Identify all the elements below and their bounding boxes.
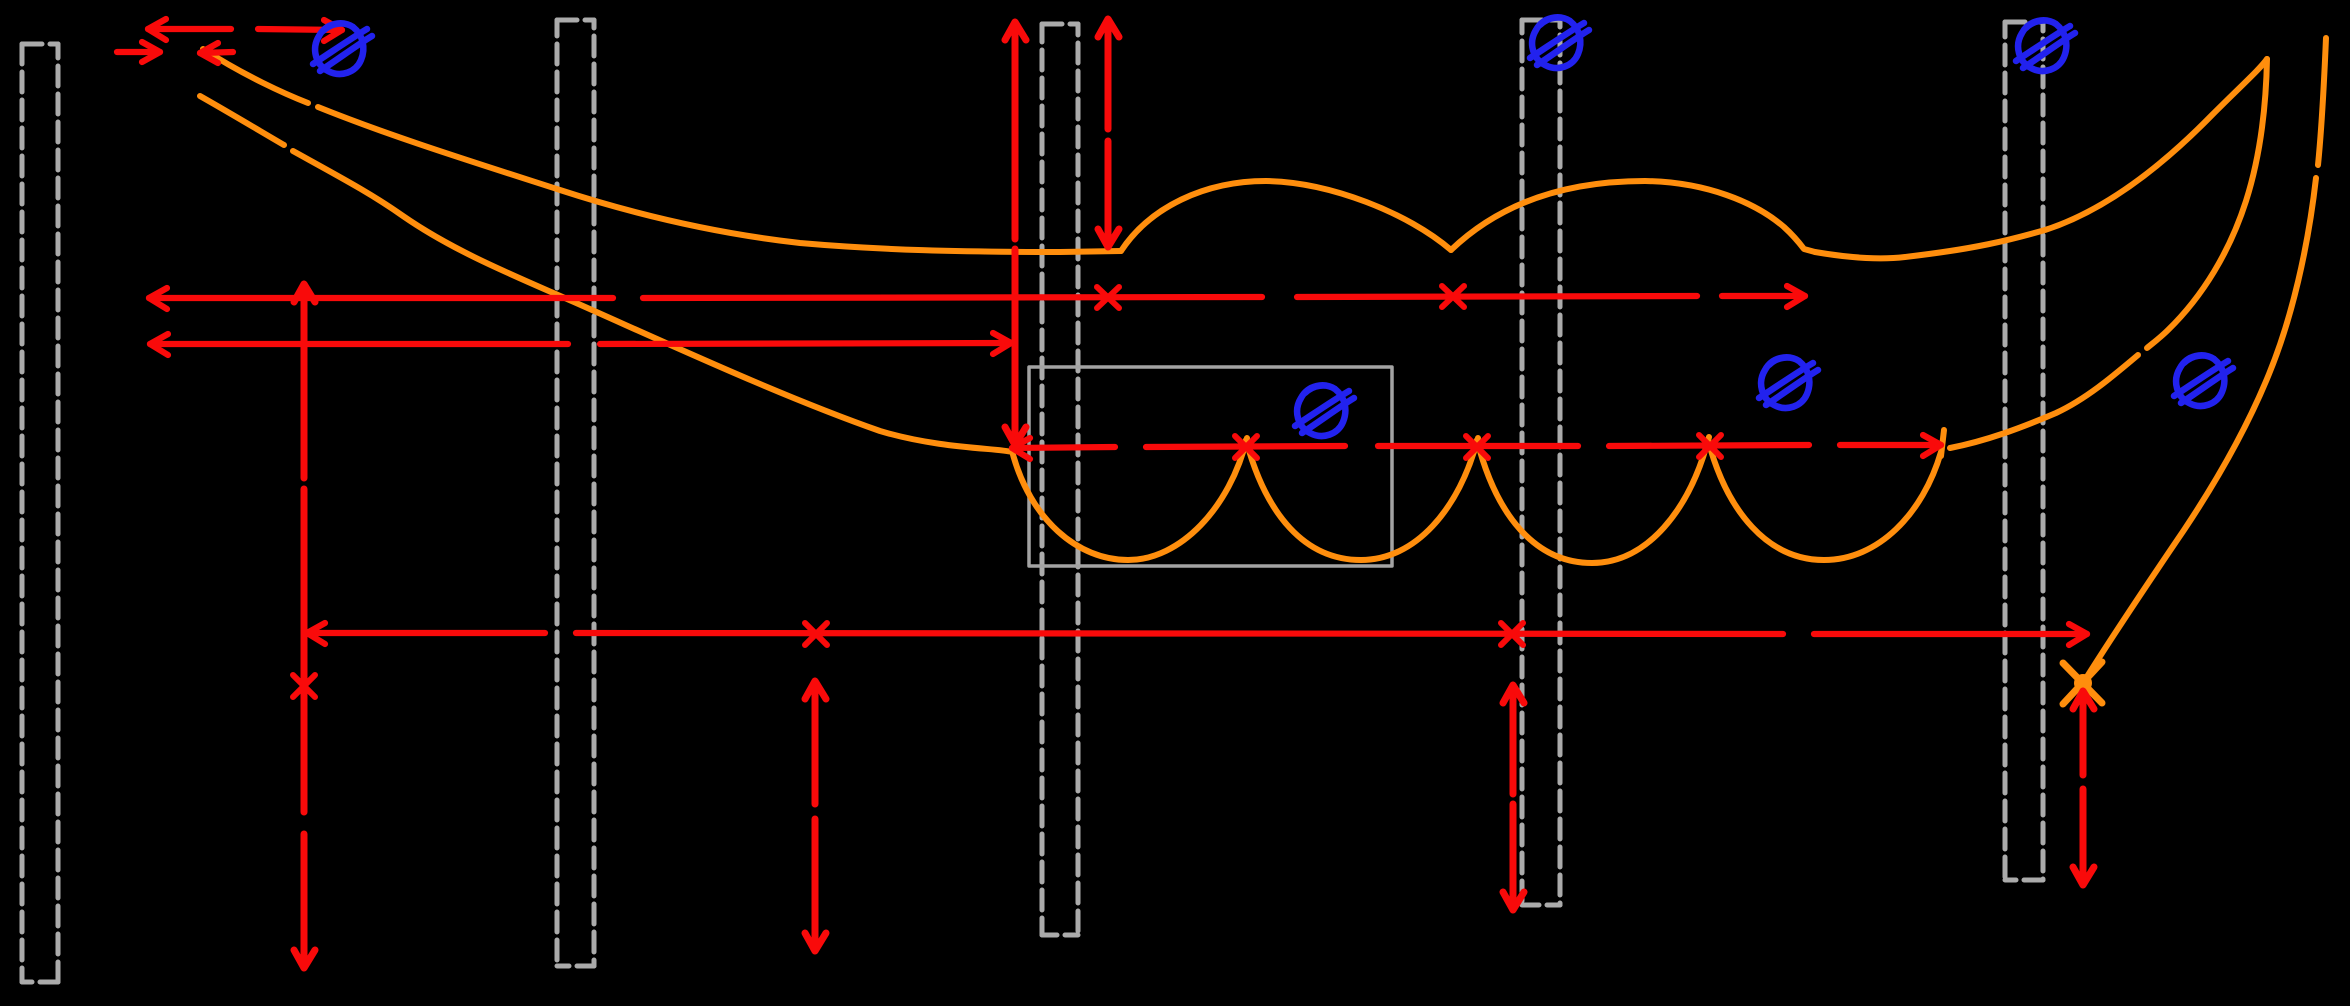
orange hull arch hump 2 <box>1451 181 1815 252</box>
orange hull stern rise to apex <box>1815 59 2267 258</box>
diameter symbol 6 (far right) <box>2174 355 2233 406</box>
dim arrow top-left pointing left <box>148 26 231 32</box>
dim arrow small pointing left <box>200 52 233 53</box>
diameter symbol 2 (above pylon D) <box>1530 17 1589 68</box>
orange festoon arc 3 <box>1477 437 1709 563</box>
orange X anchor marker <box>2063 662 2102 704</box>
dim line y=633 <box>307 630 545 636</box>
orange lower sheer line: left descent <box>200 96 284 145</box>
orange festoon arc 4 <box>1708 440 1941 560</box>
tick x on line y=633 right <box>1501 623 1523 645</box>
vertical dim line x=1015 (tall, left of pylon C) <box>1012 24 1019 239</box>
pier column E (dashed) <box>2005 22 2043 880</box>
orange hull arch hump 1 <box>1121 181 1451 251</box>
orange festoon end tick <box>1941 430 1944 456</box>
tick x on line y=633 left <box>805 623 827 645</box>
vertical dim arrow x=2083 <box>2080 693 2087 775</box>
tick x on vertical x=304 <box>293 675 315 697</box>
orange stern hook (inner right branch) <box>2147 59 2267 348</box>
tick x on line y=298 mid <box>1442 286 1464 307</box>
tick x on dashed line at cusp 3 <box>1699 435 1721 457</box>
pier column C (dashed) <box>1042 24 1078 935</box>
red dimension graphics <box>117 19 2087 645</box>
vertical dim arrow x=1513 <box>1510 687 1517 794</box>
diameter symbol 5 (right of box) <box>1759 357 1818 408</box>
orange festoon arc 2 <box>1246 438 1478 560</box>
diameter symbol 1 (top-left) <box>313 23 372 74</box>
tick x on line y=298 at pylon <box>1097 287 1119 308</box>
dashed dim line y=446 <box>1012 447 1115 448</box>
vertical dim line x=304 <box>301 286 308 478</box>
orange hull top curve: left descent <box>200 38 2326 683</box>
dim arrow top pointing right <box>258 29 342 30</box>
diameter symbol 3 (above pylon E) <box>2016 20 2075 71</box>
pier column B (dashed) <box>557 20 594 966</box>
dim arrow small pointing right <box>117 49 160 55</box>
pier column D (dashed) <box>1522 20 1560 905</box>
orange festoon arc 1 <box>1012 438 1247 560</box>
diameter symbol 4 (in detail box) <box>1295 385 1354 436</box>
vertical dim arrow x=815 <box>812 683 819 804</box>
tick x on dashed line at cusp 1 <box>1235 436 1257 458</box>
vertical dim line x=1108 (to deck) <box>1105 21 1112 129</box>
orange outer stern curve <box>2318 38 2326 165</box>
tick x on dashed line at cusp 2 <box>1466 436 1488 458</box>
dim line y=344 <box>150 341 568 347</box>
dim line y=298 <box>149 295 613 301</box>
detail box (solid gray rectangle) <box>1029 367 1392 566</box>
pier column A (dashed) <box>22 44 58 982</box>
